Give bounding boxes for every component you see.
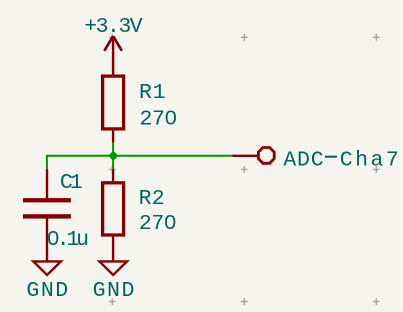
svg-text:+3.3V: +3.3V (84, 15, 143, 39)
resistor R2 (103, 183, 124, 235)
junction (110, 152, 118, 160)
svg-text:0.1u: 0.1u (47, 228, 89, 252)
svg-text:R1: R1 (139, 81, 166, 105)
svg-text:C1: C1 (60, 171, 83, 195)
pin C1 top (46, 169, 48, 198)
pin R2 bottom (112, 236, 114, 262)
pin C1 bottom (46, 218, 48, 262)
svg-text:270: 270 (140, 107, 178, 131)
pin R1 bottom (112, 130, 114, 142)
ground symbol right (99, 261, 127, 275)
wire (112, 142, 114, 170)
pin to ADC circle (232, 155, 257, 157)
svg-text:ADC: ADC (283, 148, 323, 172)
svg-text:R2: R2 (139, 187, 165, 211)
resistor R1 (103, 76, 124, 129)
svg-text:GND: GND (26, 279, 68, 303)
svg-text:270: 270 (139, 212, 177, 236)
unconnected pin circle (258, 148, 274, 164)
capacitor C1 (23, 198, 71, 218)
power symbol +3.3V (104, 36, 122, 76)
svg-text:GND: GND (93, 279, 135, 303)
ground symbol left (33, 261, 61, 275)
wire (47, 156, 233, 170)
pin R2 top (112, 169, 114, 181)
